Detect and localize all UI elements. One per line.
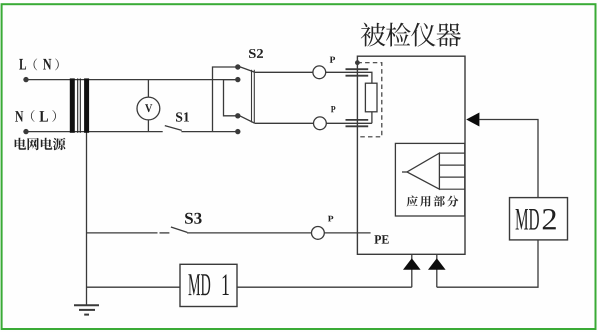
node dot where dashed box meets enclosure edge (355, 60, 360, 65)
transformer T1 winding bar right (84, 78, 89, 132)
switch S2 outer crossover bracket (213, 67, 238, 132)
wire arrow-2 down across to MD2 bottom (437, 240, 538, 287)
wire voltmeter top stub (147, 80, 149, 98)
wire P2 to mains inlet (326, 122, 372, 124)
terminal P2 circle (314, 117, 327, 130)
switch S2 inner crossover bracket (224, 80, 238, 116)
wire S2 lower pole to P2 (255, 122, 314, 124)
box MD1 (180, 264, 237, 306)
switch S2 mechanical link double line (251, 70, 253, 123)
wire N line from terminal to S1 (26, 131, 163, 133)
transformer T1 core double line (77, 78, 79, 132)
box MD2 (510, 198, 568, 240)
arrow into DUT bottom 2 (filled) (428, 258, 446, 270)
applied part lead lines (439, 153, 464, 189)
arrow into DUT bottom 1 (filled) (403, 258, 421, 270)
dashed enclosure around mains inlet (357, 63, 381, 137)
connector lower inlet bars (346, 119, 369, 121)
wire voltmeter bottom stub (147, 120, 149, 132)
switch S2 lower blade (239, 115, 255, 123)
wire S3/PE branch left (87, 232, 158, 234)
wire P3 circle to PE inside box (324, 232, 370, 234)
wire S2 upper pole to P1 (255, 71, 313, 73)
applied part box (395, 143, 464, 216)
wire MD2 top up and left to arrow-3 (479, 120, 538, 198)
title 被检仪器 (361, 23, 386, 47)
switch S2 label (249, 49, 256, 58)
label L (N) (19, 59, 26, 70)
voltmeter V1 letter (145, 104, 152, 112)
connector upper inlet bars (346, 68, 369, 70)
wire arrow-2 stem vertical (436, 254, 438, 287)
switch S2 upper blade (239, 67, 255, 73)
label N (L) (15, 111, 23, 122)
wire arrow-1 stem vertical (411, 254, 413, 287)
wire vertical earth rail (86, 132, 88, 306)
terminal P3 label (328, 216, 333, 222)
wire N line from S1 to S2 (181, 131, 237, 133)
terminal P2 label (331, 106, 336, 112)
switch S1 blade (165, 126, 182, 131)
switch S2 terminal dots (235, 64, 240, 134)
applied part triangle symbol (407, 153, 439, 189)
voltmeter V1 circle (137, 97, 160, 120)
node N terminal dot (23, 129, 28, 134)
wire MD1 branch left (87, 286, 181, 288)
node L terminal dot (23, 77, 28, 82)
terminal P1 label (330, 57, 335, 63)
DUT enclosure box 被检仪器 (357, 56, 465, 254)
ground symbol (74, 305, 99, 314)
terminal P1 circle (313, 66, 326, 79)
transformer T1 winding bar left (70, 78, 75, 132)
wire P1 to mains inlet, bend down to resistor top (326, 72, 372, 83)
label 电网电源 (15, 138, 27, 150)
terminal P3 circle (312, 227, 325, 240)
wire MD1 to arrow-1 stem (237, 286, 412, 288)
arrow into DUT right side (filled, pointing left) (466, 113, 479, 127)
wire resistor bottom to lower inlet wire (371, 112, 373, 124)
switch S3 blade (171, 227, 187, 232)
applied part triangle tail (402, 171, 407, 173)
label PE (374, 235, 381, 243)
label 应用部分 (407, 196, 418, 207)
wire S3 to P3 circle (187, 232, 312, 234)
wire L line from terminal to S2 (26, 79, 238, 81)
wire S3 fixed contact dash (160, 232, 170, 234)
switch S1 label (176, 112, 182, 121)
switch S3 label (185, 213, 193, 224)
resistor R1 (internal impedance) (365, 83, 377, 112)
label MD2 (515, 209, 528, 230)
label MD1 (188, 274, 200, 295)
